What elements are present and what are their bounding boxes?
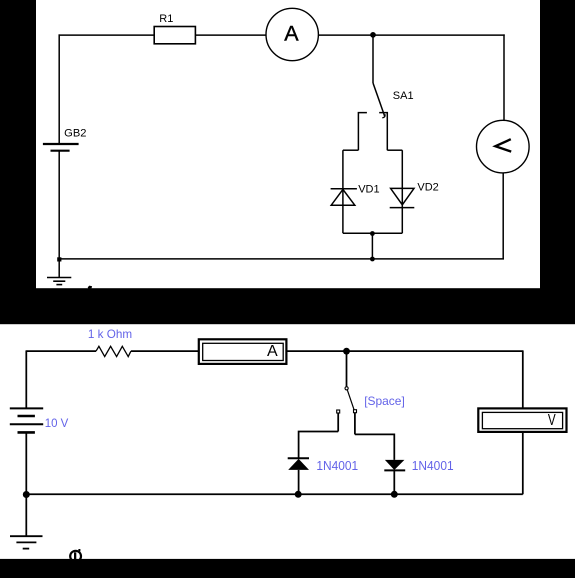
label R1 — [159, 13, 173, 25]
diode VD1 branch wire upper — [342, 150, 344, 233]
label 1N4001 left — [316, 458, 358, 473]
circuit b wire group — [26, 350, 523, 536]
wire bottom bus — [26, 493, 523, 495]
wire diode branch bottom join — [343, 232, 402, 234]
svg-text:10 V: 10 V — [45, 416, 69, 430]
svg-text:[Space]: [Space] — [364, 394, 405, 408]
white panel of circuit b — [0, 324, 575, 559]
node dot at branch join — [370, 231, 375, 236]
wire voltmeter to bottom bus — [502, 173, 504, 260]
ground (circuit a) — [47, 278, 71, 285]
label [Space] — [364, 394, 405, 408]
node dot bus right diode — [391, 491, 398, 498]
circuit a wire group — [59, 34, 505, 277]
wire branch join to bus — [371, 233, 373, 259]
wire right column top (corner to voltmeter) — [503, 34, 505, 120]
switch lower terminal collar — [343, 113, 402, 151]
battery GB2 — [43, 144, 79, 151]
label 1 k Ohm — [88, 327, 132, 341]
wire bottom bus — [59, 258, 505, 260]
diode VD1 (cathode bar top, outline triangle pointing up) — [331, 189, 357, 205]
resistor 1 kOhm zigzag — [96, 346, 131, 356]
switch SA1 — [373, 35, 385, 118]
diode D1 1N4001 (filled, pointing up) — [288, 458, 309, 494]
node dot at switch tap (circuit b) — [343, 348, 350, 355]
wire battery to ground — [25, 432, 27, 536]
node junction dot bottom-left bus — [57, 257, 61, 261]
wire resistor to ammeter box — [131, 350, 199, 352]
white panel of circuit a — [36, 0, 540, 288]
svg-text:A: A — [284, 21, 299, 45]
voltmeter PV (circle with rotated V) — [477, 120, 530, 173]
wire voltmeter to bus — [522, 432, 524, 495]
diode VD2 (outline triangle pointing down, cathode bar bottom) — [390, 188, 415, 207]
ammeter PA (circle A) — [266, 8, 318, 60]
svg-text:A: A — [267, 343, 278, 360]
label a) subfigure visible tip above black band — [88, 286, 92, 289]
label VD1 — [358, 183, 379, 195]
svg-text:VD1: VD1 — [358, 183, 379, 195]
svg-text:1 k Ohm: 1 k Ohm — [88, 327, 132, 341]
svg-text:SA1: SA1 — [393, 90, 414, 102]
label GB2 — [64, 128, 86, 140]
svg-text:1N4001: 1N4001 — [412, 458, 454, 473]
battery 10 V — [10, 408, 43, 432]
label b) subfigure (bowl with stem, cut by black band) — [70, 549, 81, 562]
ammeter box A — [199, 339, 287, 364]
svg-text:V: V — [548, 412, 556, 429]
wire ammeter to right corner — [318, 34, 505, 36]
voltmeter box V — [478, 408, 566, 432]
svg-text:R1: R1 — [159, 13, 173, 25]
label VD2 — [417, 181, 438, 193]
wire right column to voltmeter — [522, 350, 524, 408]
wire top bus left — [26, 350, 96, 352]
wire left column upper (corner to battery) — [58, 34, 60, 143]
wire collar right (circuit b) — [355, 434, 394, 460]
label 1N4001 right — [412, 458, 454, 473]
ground (circuit b) — [10, 536, 43, 548]
wire collar left (circuit b) — [299, 432, 339, 459]
wire left column lower (battery to ground) — [58, 151, 60, 278]
svg-text:VD2: VD2 — [417, 181, 438, 193]
wire ammeter box to right corner — [286, 350, 523, 352]
label SA1 — [393, 90, 414, 102]
label 10 V — [45, 416, 69, 430]
node dot on bus — [370, 257, 375, 262]
svg-text:GB2: GB2 — [64, 128, 86, 140]
node dot bus left diode — [295, 491, 302, 498]
diode D2 1N4001 (filled, pointing down) — [384, 460, 405, 494]
switch [Space] — [337, 351, 357, 434]
node dot bottom-left bus (circuit b) — [23, 491, 30, 498]
node junction dot at switch tap — [370, 32, 376, 38]
diode VD2 branch wire upper — [401, 150, 403, 233]
wire R1 to ammeter — [195, 34, 267, 36]
wire top-left horizontal — [59, 34, 155, 36]
wire left column top — [25, 350, 27, 408]
svg-text:1N4001: 1N4001 — [316, 458, 358, 473]
label a) subfigure (faint remnant on black band) — [81, 286, 93, 301]
resistor R1 — [154, 27, 195, 44]
